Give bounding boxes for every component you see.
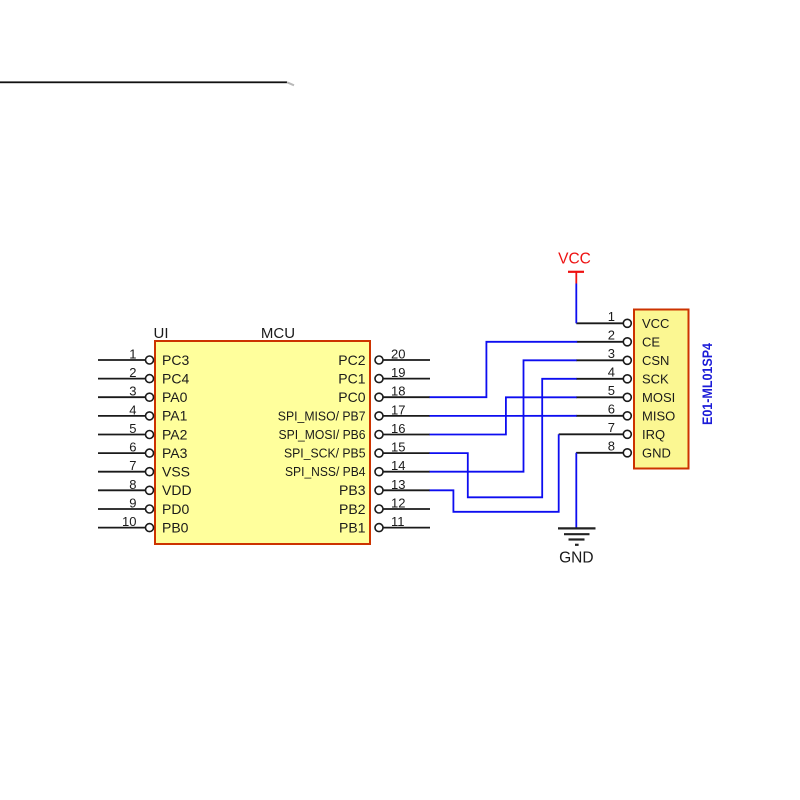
svg-text:20: 20 bbox=[391, 347, 405, 362]
svg-text:3: 3 bbox=[608, 346, 615, 361]
svg-text:PC1: PC1 bbox=[338, 370, 365, 386]
MCU U1 pin 7 VSS (left) : wire stub, pin circle, pin number, pin name bbox=[98, 458, 190, 479]
svg-text:8: 8 bbox=[129, 477, 136, 492]
wire (sheet border line, top-left) bbox=[0, 81, 287, 83]
svg-text:9: 9 bbox=[129, 496, 136, 511]
wire MISO net : MCU pin17 SPI_MISO/PB7 to module pin6 MISO bbox=[430, 415, 577, 417]
svg-text:14: 14 bbox=[391, 458, 405, 473]
svg-text:PB2: PB2 bbox=[339, 501, 366, 517]
wire MOSI net : MCU pin16 SPI_MOSI/PB6 to module pin5 MOSI bbox=[430, 397, 577, 434]
svg-text:VCC: VCC bbox=[558, 250, 591, 267]
svg-text:15: 15 bbox=[391, 440, 405, 455]
svg-text:7: 7 bbox=[608, 420, 615, 435]
svg-text:7: 7 bbox=[129, 458, 136, 473]
MCU U1 pin 10 PB0 (left) : wire stub, pin circle, pin number, pin name bbox=[98, 514, 189, 535]
module U2 pin 2 CE : wire stub, pin circle, pin number, pin name bbox=[577, 327, 661, 349]
svg-text:1: 1 bbox=[129, 347, 136, 362]
svg-text:19: 19 bbox=[391, 365, 405, 380]
svg-text:MOSI: MOSI bbox=[642, 390, 675, 405]
wire SCK net : MCU pin15 SPI_SCK/PB5 to module pin4 SCK bbox=[430, 379, 577, 498]
MCU U1 pin 3 PA0 (left) : wire stub, pin circle, pin number, pin name bbox=[98, 384, 188, 405]
MCU U1 pin 13 PB3 (right) : wire stub, pin circle, pin number, pin name bbox=[339, 477, 430, 498]
MCU U1 pin 15 SPI_SCK/PB5 (right) : wire stub, pin circle, pin number, pin name bbox=[284, 440, 430, 461]
MCU U1 pin 16 SPI_MOSI/PB6 (right) : wire stub, pin circle, pin number, pin name bbox=[279, 421, 431, 442]
svg-text:UI: UI bbox=[154, 325, 169, 342]
svg-text:PC3: PC3 bbox=[162, 352, 189, 368]
MCU U1 pin 2 PC4 (left) : wire stub, pin circle, pin number, pin name bbox=[98, 365, 189, 386]
MCU U1 pin 8 VDD (left) : wire stub, pin circle, pin number, pin name bbox=[98, 477, 192, 498]
MCU U1 pin 18 PC0 (right) : wire stub, pin circle, pin number, pin name bbox=[338, 384, 430, 405]
MCU U1 pin 14 SPI_NSS/PB4 (right) : wire stub, pin circle, pin number, pin name bbox=[285, 458, 430, 479]
svg-text:18: 18 bbox=[391, 384, 405, 399]
svg-text:PC4: PC4 bbox=[162, 370, 189, 386]
svg-text:17: 17 bbox=[391, 402, 405, 417]
wire IRQ net : MCU pin13 PB3 to module pin7 IRQ bbox=[430, 434, 559, 512]
svg-text:8: 8 bbox=[608, 438, 615, 453]
svg-text:3: 3 bbox=[129, 384, 136, 399]
svg-text:6: 6 bbox=[129, 440, 136, 455]
svg-text:PA2: PA2 bbox=[162, 426, 188, 442]
svg-text:SPI_MISO/ PB7: SPI_MISO/ PB7 bbox=[278, 408, 366, 423]
svg-text:16: 16 bbox=[391, 421, 405, 436]
MCU U1 body bbox=[155, 341, 370, 544]
svg-text:4: 4 bbox=[608, 364, 615, 379]
svg-text:12: 12 bbox=[391, 496, 405, 511]
RF module U2 E01-ML01SP4 body bbox=[634, 310, 689, 469]
MCU U1 pin 6 PA3 (left) : wire stub, pin circle, pin number, pin name bbox=[98, 440, 188, 461]
svg-text:11: 11 bbox=[391, 514, 405, 529]
svg-text:IRQ: IRQ bbox=[642, 427, 665, 442]
svg-text:PB0: PB0 bbox=[162, 519, 189, 535]
svg-text:PA3: PA3 bbox=[162, 445, 188, 461]
svg-text:PB1: PB1 bbox=[339, 519, 366, 535]
svg-text:5: 5 bbox=[129, 421, 136, 436]
svg-text:6: 6 bbox=[608, 401, 615, 416]
wire CE net : MCU pin18 PC0 to module pin2 CE bbox=[430, 342, 578, 397]
power symbol VCC (red) bbox=[558, 250, 591, 283]
svg-text:PC0: PC0 bbox=[338, 389, 365, 405]
svg-text:4: 4 bbox=[129, 402, 136, 417]
svg-text:GND: GND bbox=[559, 550, 593, 567]
MCU U1 pin 17 SPI_MISO/PB7 (right) : wire stub, pin circle, pin number, pin name bbox=[278, 402, 430, 423]
module U2 pin 8 GND : wire stub, pin circle, pin number, pin name bbox=[576, 438, 671, 460]
svg-text:CSN: CSN bbox=[642, 353, 669, 368]
svg-text:SPI_SCK/ PB5: SPI_SCK/ PB5 bbox=[284, 446, 366, 461]
svg-text:SCK: SCK bbox=[642, 371, 669, 386]
svg-text:CE: CE bbox=[642, 334, 660, 349]
svg-text:E01-ML01SP4: E01-ML01SP4 bbox=[699, 343, 715, 425]
MCU U1 pin 20 PC2 (right) : wire stub, pin circle, pin number, pin name bbox=[338, 347, 430, 368]
module U2 pin 7 IRQ : wire stub, pin circle, pin number, pin name bbox=[559, 420, 665, 442]
MCU U1 pin 11 PB1 (right) : wire stub, pin circle, pin number, pin name bbox=[339, 514, 430, 535]
MCU U1 pin 5 PA2 (left) : wire stub, pin circle, pin number, pin name bbox=[98, 421, 188, 442]
svg-text:PD0: PD0 bbox=[162, 501, 189, 517]
svg-text:13: 13 bbox=[391, 477, 405, 492]
MCU U1 pin 9 PD0 (left) : wire stub, pin circle, pin number, pin name bbox=[98, 496, 189, 517]
svg-text:SPI_MOSI/ PB6: SPI_MOSI/ PB6 bbox=[279, 427, 366, 442]
svg-text:VCC: VCC bbox=[642, 316, 669, 331]
MCU U1 pin 4 PA1 (left) : wire stub, pin circle, pin number, pin name bbox=[98, 402, 188, 423]
module U2 pin 6 MISO : wire stub, pin circle, pin number, pin name bbox=[576, 401, 675, 423]
module U2 pin 3 CSN : wire stub, pin circle, pin number, pin name bbox=[576, 346, 669, 368]
wire GND net : blue vertical from module pin 8 down to ground symbol bbox=[575, 453, 577, 528]
svg-text:5: 5 bbox=[608, 383, 615, 398]
svg-text:MISO: MISO bbox=[642, 408, 675, 423]
module U2 pin 1 VCC : wire stub, pin circle, pin number, pin name bbox=[576, 309, 669, 331]
svg-text:PB3: PB3 bbox=[339, 482, 366, 498]
MCU U1 pin 1 PC3 (left) : wire stub, pin circle, pin number, pin name bbox=[98, 347, 189, 368]
svg-text:PA0: PA0 bbox=[162, 389, 188, 405]
svg-text:SPI_NSS/ PB4: SPI_NSS/ PB4 bbox=[285, 464, 366, 479]
wire VCC net : blue vertical from VCC symbol down to module pin 1 bbox=[575, 284, 577, 324]
svg-text:VDD: VDD bbox=[162, 482, 192, 498]
module U2 pin 5 MOSI : wire stub, pin circle, pin number, pin name bbox=[576, 383, 675, 405]
module U2 pin 4 SCK : wire stub, pin circle, pin number, pin name bbox=[576, 364, 669, 386]
svg-text:2: 2 bbox=[129, 365, 136, 380]
svg-text:MCU: MCU bbox=[261, 325, 295, 342]
svg-text:1: 1 bbox=[608, 309, 615, 324]
svg-text:PA1: PA1 bbox=[162, 408, 188, 424]
svg-text:2: 2 bbox=[608, 327, 615, 342]
wire CSN net : MCU pin14 SPI_NSS/PB4 to module pin3 CSN bbox=[430, 360, 577, 471]
svg-text:VSS: VSS bbox=[162, 464, 190, 480]
MCU U1 pin 19 PC1 (right) : wire stub, pin circle, pin number, pin name bbox=[338, 365, 430, 386]
svg-text:GND: GND bbox=[642, 445, 671, 460]
svg-text:PC2: PC2 bbox=[338, 352, 365, 368]
ground symbol GND bbox=[558, 528, 596, 566]
svg-text:10: 10 bbox=[122, 514, 136, 529]
MCU U1 pin 12 PB2 (right) : wire stub, pin circle, pin number, pin name bbox=[339, 496, 430, 517]
